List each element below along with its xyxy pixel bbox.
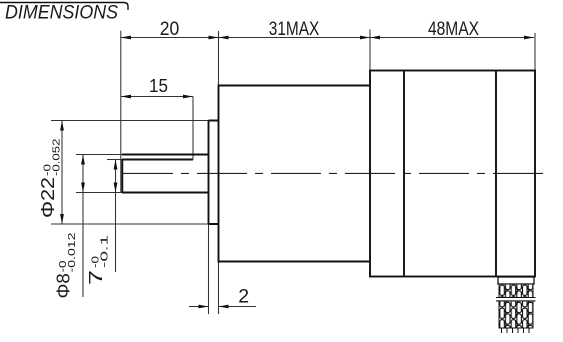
svg-text:Φ22: Φ22 (37, 177, 58, 218)
svg-text:2: 2 (238, 285, 249, 307)
svg-text:-0.1: -0.1 (100, 234, 111, 268)
svg-text:Φ8: Φ8 (53, 273, 74, 298)
svg-text:15: 15 (149, 75, 168, 96)
svg-text:-0.052: -0.052 (52, 138, 63, 176)
svg-text:DIMENSIONS: DIMENSIONS (5, 2, 118, 24)
svg-text:20: 20 (160, 18, 180, 40)
svg-text:7: 7 (85, 270, 106, 285)
svg-text:48MAX: 48MAX (428, 18, 479, 40)
svg-text:31MAX: 31MAX (269, 18, 320, 40)
svg-text:-0.012: -0.012 (67, 232, 78, 273)
